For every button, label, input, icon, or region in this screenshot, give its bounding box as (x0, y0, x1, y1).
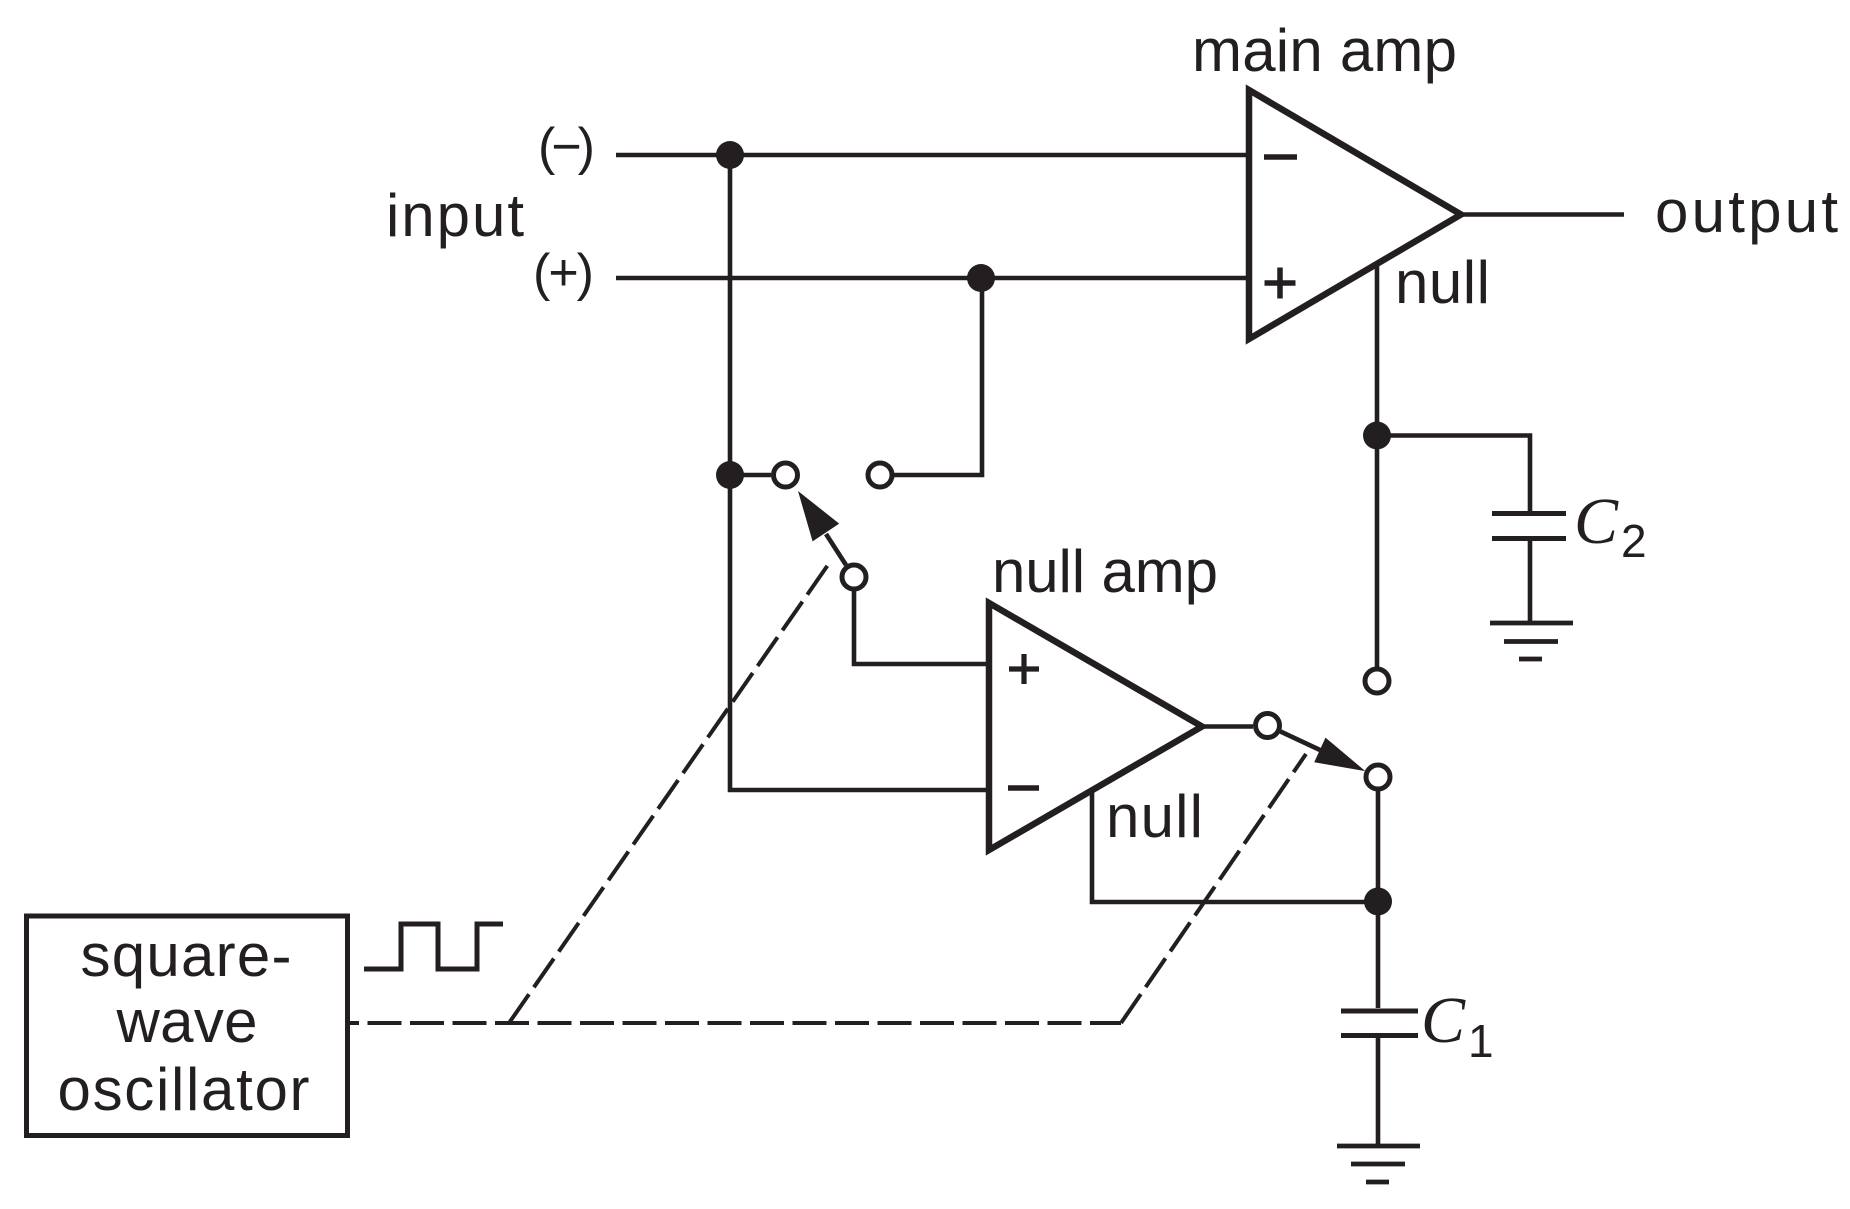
svg-text:(+): (+) (533, 244, 594, 302)
wire switch2 lower circle down to C1 (1376, 791, 1381, 1008)
null amp minus sign (1008, 785, 1039, 791)
svg-text:oscillator: oscillator (58, 1056, 310, 1123)
wire C2 lower lead (1528, 541, 1533, 621)
main amp plus sign (1265, 268, 1296, 299)
square wave symbol (364, 924, 503, 969)
svg-text:C: C (1574, 485, 1619, 558)
wire output line (1461, 212, 1624, 217)
wire null amp null pin to C1 node (1092, 790, 1378, 902)
square-wave oscillator box (27, 916, 348, 1136)
svg-text:1: 1 (1468, 1015, 1494, 1067)
wire from (-) node down to null amp inverting input (730, 155, 989, 790)
switch S1 throw contact 2 (868, 463, 892, 487)
node I junction dot at C2 tap (1363, 422, 1391, 450)
wire C1 lower lead (1376, 1038, 1381, 1144)
wire dashed clock branch to switch S1 (509, 562, 830, 1023)
wire C2 tap (1377, 436, 1530, 512)
switch S1 pole contact (842, 565, 866, 589)
svg-text:C: C (1421, 984, 1466, 1057)
ground below C1 (1337, 1146, 1420, 1182)
svg-text:(−): (−) (538, 118, 595, 176)
capacitor C1 plates (1341, 1011, 1418, 1036)
null amp plus sign (1009, 654, 1039, 684)
switch S1 throw contact 1 (774, 463, 798, 487)
switch S2 pole contact (null amp output) (1256, 714, 1280, 738)
svg-text:square-: square- (81, 922, 292, 989)
wire stub node C to switch throw circle (730, 473, 771, 478)
wire (+) input line (616, 276, 1249, 281)
svg-text:null: null (1106, 783, 1203, 850)
svg-text:main amp: main amp (1192, 17, 1457, 84)
switch S2 throw contact lower (1366, 765, 1390, 789)
svg-text:wave: wave (116, 988, 258, 1055)
wire from (+) node down to switch throw (894, 278, 982, 475)
wire main amp null pin down (1375, 264, 1380, 667)
ground below C2 (1490, 623, 1573, 659)
switch S2 throw contact upper (1365, 669, 1389, 693)
node B junction dot on (+) line (967, 264, 995, 292)
node A junction dot on (-) line (716, 141, 744, 169)
svg-text:null amp: null amp (992, 538, 1218, 605)
wire switch pole to null amp noninverting input (854, 591, 989, 664)
wire (-) input line (616, 153, 1249, 158)
node H junction dot at C1 (1364, 888, 1392, 916)
op-amp U1 main amp (1249, 90, 1461, 339)
svg-text:null: null (1395, 249, 1490, 316)
svg-text:2: 2 (1621, 515, 1647, 567)
op-amp U2 null amp (989, 603, 1202, 850)
main amp minus sign (1264, 154, 1297, 160)
wire null amp output (1202, 724, 1253, 729)
switch S2 arrow (1281, 732, 1321, 751)
wire dashed clock branch to switch S2 (1121, 754, 1306, 1023)
node C junction dot at switch (716, 461, 744, 489)
wire dashed clock line horizontal (349, 1021, 1121, 1025)
capacitor C2 plates (1492, 514, 1566, 539)
switch S1 arrow (826, 534, 846, 565)
svg-text:input: input (386, 182, 524, 249)
